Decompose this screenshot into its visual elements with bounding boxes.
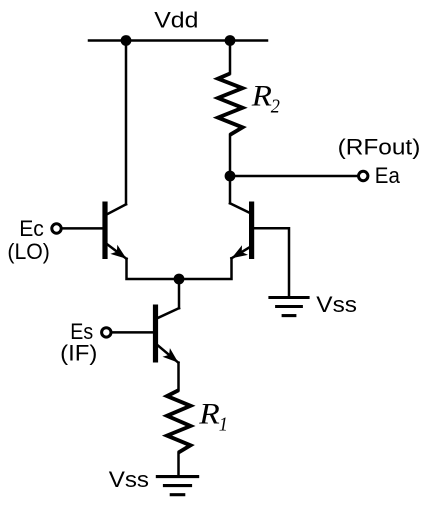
svg-text:(IF): (IF) [60,341,97,366]
wire R1 bottom lead [177,453,180,477]
resistor R2 [218,74,243,135]
wire Q1 collector riser [125,41,128,205]
wire Q3 base lead [111,331,153,334]
resistor R1 [167,390,191,452]
wire common emitter bus [127,258,232,279]
transistor Q1 (left NPN of differential pair) [102,202,126,260]
junction dot Vdd rail / R2 [225,35,236,46]
junction dot Vdd rail / Q1 collector [121,35,132,46]
ground Vss (bottom) [156,477,199,495]
junction dot output node [225,171,236,182]
svg-text:Ea: Ea [375,163,400,188]
terminal Ea (open circle) [359,171,368,180]
svg-text:Vdd: Vdd [154,8,198,32]
terminal Es (open circle) [102,328,111,337]
wire Q3 collector riser [178,279,181,308]
svg-text:2: 2 [271,96,280,118]
svg-text:(LO): (LO) [7,238,49,264]
wire R2 bottom lead [229,135,232,176]
terminal Ec (open circle) [52,224,61,233]
svg-text:(RFout): (RFout) [338,135,421,160]
wire Q2 collector riser [229,176,232,203]
wire output node to Ea terminal [230,175,358,178]
transistor Q3 (bottom NPN current source) [153,305,179,363]
wire Q1 base lead [62,227,103,230]
svg-text:R: R [198,398,220,431]
ground Vss (right) [268,298,309,316]
svg-text:Vss: Vss [316,292,357,317]
wire R2 top lead [229,41,232,74]
svg-text:1: 1 [219,414,228,436]
wire Q2 base lead to ground [254,228,289,297]
wire Vdd power rail [89,39,267,42]
transistor Q2 (right NPN of differential pair, mirrored) [230,202,254,260]
wire Q3 emitter lead [177,363,180,391]
svg-text:R: R [251,79,272,112]
svg-text:Vss: Vss [109,467,149,492]
svg-text:Ec: Ec [19,216,44,242]
junction dot common emitters / Q3 collector [174,274,185,285]
